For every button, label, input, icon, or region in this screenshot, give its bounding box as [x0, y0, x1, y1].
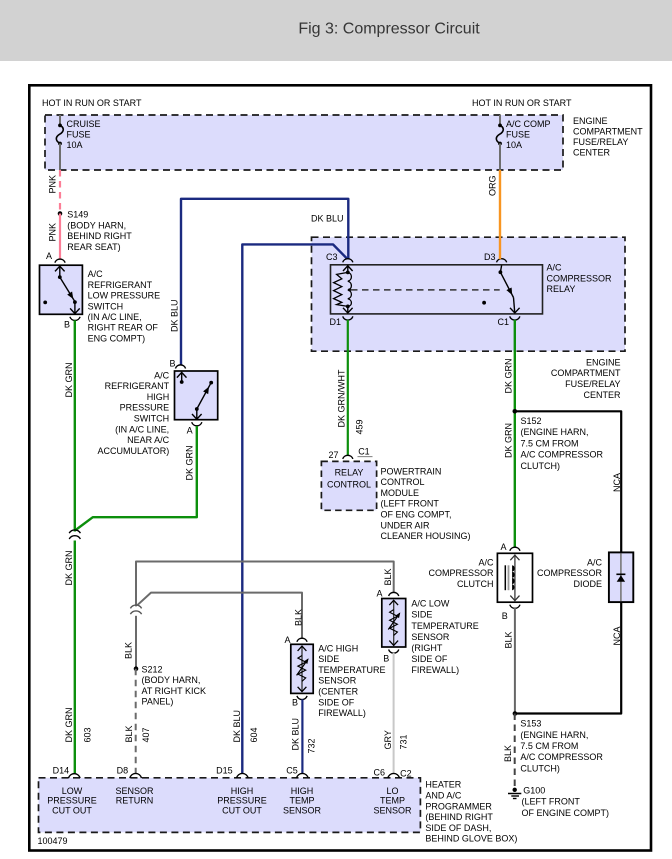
svg-text:CLUTCH): CLUTCH)	[521, 461, 561, 471]
wire BLK branch to high side sensor	[137, 593, 302, 639]
terminal D15	[237, 773, 249, 778]
svg-text:C1: C1	[498, 317, 510, 327]
wire DK BLU relay C3 to D15 high pressure cut out	[242, 244, 346, 773]
relay coil	[347, 265, 349, 272]
svg-text:(LEFT FRONT: (LEFT FRONT	[381, 499, 440, 509]
splice S149	[58, 211, 63, 216]
svg-text:A: A	[187, 425, 193, 435]
svg-text:SIDE: SIDE	[318, 654, 339, 664]
svg-text:(CENTER: (CENTER	[318, 687, 358, 697]
inline connector on DK GRN wire	[69, 530, 80, 533]
svg-text:ACCUMULATOR): ACCUMULATOR)	[98, 446, 170, 456]
svg-text:TEMP: TEMP	[380, 796, 405, 806]
svg-text:LOW: LOW	[62, 786, 83, 796]
svg-text:731: 731	[399, 734, 409, 749]
svg-text:C1: C1	[358, 446, 370, 456]
svg-text:AND A/C: AND A/C	[425, 791, 462, 801]
svg-text:459: 459	[354, 419, 364, 434]
svg-text:BLK: BLK	[293, 609, 303, 626]
svg-text:(BODY HARN,: (BODY HARN,	[67, 220, 126, 230]
svg-text:FUSE: FUSE	[506, 130, 530, 140]
svg-text:A/C: A/C	[88, 269, 104, 279]
cruise fuse lead (bottom)	[59, 144, 61, 171]
wire DK GRN connector to D14	[74, 541, 76, 774]
svg-text:COMPRESSOR: COMPRESSOR	[537, 568, 603, 578]
svg-text:A: A	[46, 251, 52, 261]
svg-text:OF ENGINE COMPT): OF ENGINE COMPT)	[522, 808, 610, 818]
svg-text:TEMP: TEMP	[289, 796, 314, 806]
svg-text:FUSE/RELAY: FUSE/RELAY	[565, 379, 620, 389]
svg-text:DIODE: DIODE	[573, 579, 602, 589]
connector A (low side sensor)	[389, 592, 399, 596]
wire BLK riser to sensors	[136, 562, 394, 607]
svg-text:BLK: BLK	[504, 631, 514, 648]
svg-text:BEHIND GLOVE BOX): BEHIND GLOVE BOX)	[425, 834, 517, 844]
wire DK GRN/WHT relay D1 to PCM	[347, 320, 349, 456]
svg-text:COMPARTMENT: COMPARTMENT	[573, 127, 643, 137]
svg-text:COMPRESSOR: COMPRESSOR	[547, 273, 613, 283]
svg-text:A/C COMPRESSOR: A/C COMPRESSOR	[520, 752, 603, 762]
wire BLK connector to S212	[135, 616, 137, 669]
svg-text:OF ENG COMPT,: OF ENG COMPT,	[381, 510, 452, 520]
svg-text:S153: S153	[520, 719, 541, 729]
svg-text:REFRIGERANT: REFRIGERANT	[88, 280, 153, 290]
svg-text:TEMPERATURE: TEMPERATURE	[318, 665, 385, 675]
svg-text:ENGINE: ENGINE	[573, 116, 608, 126]
relay switch contacts	[500, 265, 501, 272]
svg-text:BEHIND RIGHT: BEHIND RIGHT	[67, 231, 132, 241]
svg-text:(ENGINE HARN,: (ENGINE HARN,	[520, 730, 588, 740]
svg-text:MODULE: MODULE	[381, 488, 420, 498]
connector B (low pressure switch)	[70, 317, 80, 321]
svg-text:FIREWALL): FIREWALL)	[411, 665, 459, 675]
svg-text:A/C HIGH: A/C HIGH	[318, 643, 358, 653]
svg-text:(IN A/C LINE,: (IN A/C LINE,	[88, 312, 142, 322]
svg-text:HIGH: HIGH	[231, 786, 254, 796]
svg-text:DK BLU: DK BLU	[232, 710, 242, 743]
connector A (high side sensor)	[297, 638, 307, 642]
wire GRY low side sensor B to C6	[393, 653, 395, 773]
cruise fuse lead (top)	[59, 115, 61, 124]
svg-text:(RIGHT: (RIGHT	[411, 643, 442, 653]
svg-text:SIDE OF DASH,: SIDE OF DASH,	[425, 823, 491, 833]
svg-text:HEATER: HEATER	[425, 780, 461, 790]
svg-text:D1: D1	[330, 317, 342, 327]
svg-text:A/C: A/C	[587, 557, 603, 567]
svg-text:REAR SEAT): REAR SEAT)	[67, 242, 120, 252]
svg-text:D15: D15	[216, 765, 233, 775]
svg-text:D8: D8	[117, 765, 129, 775]
svg-text:A/C COMPRESSOR: A/C COMPRESSOR	[521, 450, 604, 460]
svg-text:FUSE: FUSE	[67, 130, 91, 140]
svg-text:RELAY: RELAY	[335, 468, 364, 478]
svg-text:HIGH: HIGH	[291, 786, 314, 796]
wire DK BLU high side sensor B to C5	[301, 699, 303, 773]
svg-text:(IN A/C LINE,: (IN A/C LINE,	[115, 424, 169, 434]
svg-text:PRESSURE: PRESSURE	[217, 796, 267, 806]
splice S153	[513, 711, 518, 716]
svg-text:DK GRN: DK GRN	[64, 550, 74, 585]
svg-text:DK BLU: DK BLU	[291, 718, 301, 751]
solenoid L1: A/C compressor clutch	[497, 553, 532, 602]
svg-text:D3: D3	[484, 252, 496, 262]
connector D1	[343, 316, 353, 320]
connector B (high side sensor)	[297, 696, 307, 700]
a/c comp fuse lead (bottom)	[499, 144, 501, 171]
wire DK GRN low pressure switch B down	[74, 320, 76, 531]
fuse/relay center box (top)	[45, 115, 563, 170]
splice S212	[134, 666, 139, 671]
svg-text:RELAY: RELAY	[547, 284, 576, 294]
module: RELAY CONTROL (PCM)	[321, 461, 376, 510]
svg-text:SIDE: SIDE	[411, 610, 432, 620]
svg-text:732: 732	[306, 738, 316, 753]
svg-text:DK GRN: DK GRN	[184, 445, 194, 480]
svg-text:BLK: BLK	[383, 568, 393, 585]
svg-text:PANEL): PANEL)	[142, 697, 174, 707]
svg-text:PRESSURE: PRESSURE	[47, 796, 97, 806]
svg-text:DK BLU: DK BLU	[311, 214, 344, 224]
svg-text:GRY: GRY	[383, 730, 393, 749]
svg-text:A/C COMP: A/C COMP	[506, 119, 551, 129]
svg-text:AT RIGHT KICK: AT RIGHT KICK	[142, 686, 207, 696]
svg-text:CONTROL: CONTROL	[381, 477, 425, 487]
svg-text:7.5 CM FROM: 7.5 CM FROM	[521, 438, 579, 448]
fuse CRUISE FUSE 10A	[58, 124, 62, 128]
engine compartment fuse/relay center box (relay)	[312, 237, 626, 351]
svg-text:DK BLU: DK BLU	[170, 299, 180, 332]
svg-text:CLUTCH: CLUTCH	[457, 579, 494, 589]
svg-text:BLK: BLK	[123, 642, 133, 659]
ground G100	[513, 788, 517, 792]
svg-text:C5: C5	[286, 765, 298, 775]
svg-text:UNDER AIR: UNDER AIR	[381, 520, 431, 530]
connector A (high pressure switch)	[192, 422, 202, 426]
terminal D8	[130, 773, 142, 778]
wire PNK (dashed) fuse to S149	[59, 170, 61, 212]
connector A (low pressure switch)	[55, 259, 65, 263]
relay U: A/C compressor relay box	[331, 265, 543, 314]
svg-text:BLK: BLK	[503, 745, 513, 762]
svg-text:SWITCH: SWITCH	[134, 414, 170, 424]
svg-text:SENSOR: SENSOR	[115, 786, 154, 796]
svg-text:D14: D14	[53, 765, 70, 775]
svg-text:B: B	[502, 611, 508, 621]
svg-text:SIDE OF: SIDE OF	[318, 697, 355, 707]
svg-text:A/C: A/C	[154, 370, 170, 380]
svg-text:CLEANER HOUSING): CLEANER HOUSING)	[381, 531, 471, 541]
connector B (clutch)	[510, 605, 520, 609]
svg-text:ORG: ORG	[488, 175, 498, 196]
wire ORG fuse to relay D3	[499, 170, 501, 259]
svg-text:PNK: PNK	[48, 175, 58, 194]
svg-text:SENSOR: SENSOR	[318, 676, 357, 686]
title bar	[0, 0, 672, 61]
wire BLK clutch B down to S153	[514, 608, 516, 714]
svg-text:COMPARTMENT: COMPARTMENT	[551, 368, 621, 378]
svg-text:DK GRN/WHT: DK GRN/WHT	[337, 369, 347, 427]
svg-text:SENSOR: SENSOR	[283, 806, 322, 816]
splice S152	[513, 409, 518, 414]
svg-text:C3: C3	[326, 252, 338, 262]
svg-text:TEMPERATURE: TEMPERATURE	[411, 621, 478, 631]
svg-text:LO: LO	[386, 786, 398, 796]
svg-text:B: B	[292, 698, 298, 708]
svg-text:COMPRESSOR: COMPRESSOR	[428, 568, 494, 578]
svg-text:(BEHIND RIGHT: (BEHIND RIGHT	[425, 812, 493, 822]
switch: A/C refrigerant low pressure switch	[40, 265, 83, 314]
svg-text:A/C: A/C	[478, 557, 494, 567]
svg-text:CENTER: CENTER	[573, 147, 611, 157]
inline connector on BLK wire	[130, 605, 141, 608]
svg-text:RETURN: RETURN	[116, 796, 154, 806]
svg-text:CLUTCH): CLUTCH)	[520, 763, 560, 773]
wire DK BLU relay C3 to high pressure switch B	[181, 199, 348, 366]
wire NCA diode to S153	[516, 602, 621, 713]
svg-text:LOW PRESSURE: LOW PRESSURE	[88, 291, 161, 301]
svg-text:A/C: A/C	[547, 263, 563, 273]
svg-text:DK GRN: DK GRN	[64, 707, 74, 742]
svg-text:CRUISE: CRUISE	[67, 119, 101, 129]
svg-text:NCA: NCA	[612, 473, 622, 492]
svg-text:POWERTRAIN: POWERTRAIN	[381, 466, 442, 476]
terminal C5	[297, 773, 309, 778]
relay control dashed line	[348, 288, 351, 291]
svg-text:NEAR A/C: NEAR A/C	[127, 435, 170, 445]
wire NCA S152 to diode (top)	[515, 411, 621, 552]
svg-text:DK GRN: DK GRN	[504, 358, 514, 393]
svg-text:A: A	[377, 589, 383, 599]
svg-text:SWITCH: SWITCH	[88, 301, 124, 311]
svg-text:Fig 3: Compressor Circuit: Fig 3: Compressor Circuit	[298, 21, 480, 38]
svg-text:PNK: PNK	[48, 223, 58, 242]
svg-text:CONTROL: CONTROL	[327, 480, 371, 490]
svg-text:B: B	[383, 654, 389, 664]
svg-text:7.5 CM FROM: 7.5 CM FROM	[520, 741, 578, 751]
fuse A/C COMP FUSE 10A	[498, 124, 502, 128]
svg-text:HOT IN RUN OR START: HOT IN RUN OR START	[42, 98, 142, 108]
terminal D14	[69, 774, 81, 778]
svg-text:S212: S212	[142, 664, 163, 674]
svg-text:PRESSURE: PRESSURE	[120, 403, 170, 413]
wire PNK S149 to switch A	[59, 214, 61, 260]
switch: A/C refrigerant high pressure switch	[175, 371, 218, 420]
svg-text:407: 407	[141, 727, 151, 742]
svg-text:FUSE/RELAY: FUSE/RELAY	[573, 137, 628, 147]
svg-text:604: 604	[249, 727, 259, 742]
svg-text:10A: 10A	[506, 140, 522, 150]
svg-text:27: 27	[329, 450, 339, 460]
svg-text:A: A	[285, 635, 291, 645]
wire BLK (dashed) S153 to ground	[514, 714, 516, 787]
terminal C6 / C2	[388, 773, 400, 778]
svg-text:CUT OUT: CUT OUT	[52, 806, 92, 816]
svg-text:S149: S149	[67, 210, 88, 220]
svg-text:C2: C2	[400, 768, 412, 778]
svg-text:B: B	[64, 319, 70, 329]
thermistor: A/C low side temperature sensor	[382, 599, 406, 648]
svg-text:A/C LOW: A/C LOW	[411, 599, 450, 609]
svg-text:S152: S152	[521, 416, 542, 426]
svg-text:PROGRAMMER: PROGRAMMER	[425, 801, 492, 811]
svg-text:BLK: BLK	[124, 725, 134, 742]
connector B (low side sensor)	[389, 650, 399, 654]
connector C3	[343, 259, 353, 263]
svg-text:A: A	[501, 542, 507, 552]
diode D1: A/C compressor diode	[609, 552, 633, 602]
svg-text:RIGHT REAR OF: RIGHT REAR OF	[88, 323, 159, 333]
svg-text:G100: G100	[523, 785, 545, 795]
svg-text:C6: C6	[374, 767, 386, 777]
wire DK GRN high pressure switch A branch	[75, 426, 197, 531]
svg-text:CUT OUT: CUT OUT	[222, 806, 262, 816]
wire DK GRN relay C1 to clutch A	[514, 320, 516, 548]
svg-text:REFRIGERANT: REFRIGERANT	[105, 381, 170, 391]
module: heater and A/C programmer box	[39, 778, 421, 833]
wire BLK (dashed) S212 to D8	[135, 669, 137, 774]
svg-text:SENSOR: SENSOR	[373, 806, 412, 816]
svg-text:DK GRN: DK GRN	[504, 423, 514, 458]
svg-text:DK GRN: DK GRN	[64, 362, 74, 397]
svg-text:NCA: NCA	[612, 626, 622, 645]
svg-text:SIDE OF: SIDE OF	[411, 654, 448, 664]
connector B (high pressure switch)	[175, 365, 185, 369]
svg-text:ENGINE: ENGINE	[586, 357, 621, 367]
connector A (clutch)	[510, 547, 520, 551]
connector C1	[510, 316, 520, 320]
svg-text:CENTER: CENTER	[583, 390, 621, 400]
svg-text:(ENGINE HARN,: (ENGINE HARN,	[521, 427, 589, 437]
svg-text:ENG COMPT): ENG COMPT)	[88, 333, 146, 343]
svg-text:FIREWALL): FIREWALL)	[318, 708, 366, 718]
connector D3	[497, 259, 507, 263]
svg-text:10A: 10A	[67, 140, 83, 150]
svg-text:HOT IN RUN OR START: HOT IN RUN OR START	[472, 98, 572, 108]
a/c comp fuse lead (top)	[499, 115, 501, 124]
svg-text:B: B	[170, 358, 176, 368]
svg-text:(LEFT FRONT: (LEFT FRONT	[522, 797, 581, 807]
svg-text:HIGH: HIGH	[147, 392, 170, 402]
svg-text:(BODY HARN,: (BODY HARN,	[142, 675, 201, 685]
svg-text:100479: 100479	[38, 836, 68, 846]
svg-text:SENSOR: SENSOR	[411, 632, 450, 642]
svg-text:603: 603	[82, 727, 92, 742]
thermistor: A/C high side temperature sensor	[291, 644, 313, 693]
